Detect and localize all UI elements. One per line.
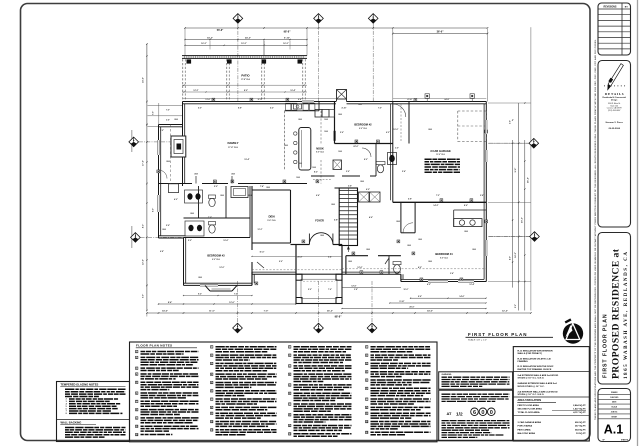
svg-text:2868: 2868 [338, 114, 342, 116]
svg-text:THESE PLANS AND SPECIFICATIONS: THESE PLANS AND SPECIFICATIONS ARE THE P… [594, 39, 597, 420]
den walls [251, 186, 253, 250]
patio roof band [182, 55, 307, 57]
svg-text:2868: 2868 [464, 231, 468, 233]
stairs [339, 188, 357, 246]
stair hall wall [335, 187, 340, 189]
porch posts [296, 274, 302, 280]
svg-text:2'-6": 2'-6" [346, 171, 350, 173]
svg-text:12'-4": 12'-4" [469, 283, 474, 286]
top extension lines [184, 29, 186, 56]
bed3 bay dim row [184, 295, 253, 297]
svg-text:9: 9 [289, 425, 290, 427]
svg-text:7: 7 [136, 401, 137, 403]
garage window tags [425, 94, 429, 98]
svg-text:FOYER: FOYER [315, 220, 324, 223]
patio post tags [187, 59, 192, 63]
svg-text:2'-6": 2'-6" [166, 225, 170, 227]
svg-text:24'-2": 24'-2" [245, 36, 251, 39]
svg-text:2868: 2868 [418, 239, 422, 241]
svg-text:2868: 2868 [396, 221, 400, 223]
svg-text:5: 5 [136, 382, 137, 384]
svg-text:2868: 2868 [298, 163, 302, 165]
svg-text:4'-10": 4'-10" [407, 98, 412, 101]
bottom dimension rows right [342, 287, 401, 289]
svg-text:6'-0": 6'-0" [143, 294, 145, 298]
kitchen island [299, 128, 311, 171]
svg-text:8: 8 [211, 407, 212, 409]
floor plan notes column 2 [211, 346, 213, 349]
svg-text:5068: 5068 [312, 167, 316, 169]
svg-text:20'-2": 20'-2" [521, 217, 523, 223]
svg-text:FAMILY: FAMILY [227, 141, 239, 145]
svg-text:16'-2": 16'-2" [283, 43, 288, 45]
svg-text:14'-6": 14'-6" [459, 295, 464, 298]
pencil logo [608, 64, 624, 90]
svg-text:9'-0" CLG: 9'-0" CLG [316, 152, 324, 154]
island stools [294, 132, 297, 135]
svg-text:56'-8": 56'-8" [217, 29, 224, 32]
svg-text:2868: 2868 [428, 129, 432, 131]
tempered glazing notes box [57, 382, 130, 442]
svg-text:1865 WABASH AVE, REDLANDS, CA: 1865 WABASH AVE, REDLANDS, CA [623, 250, 629, 379]
svg-text:1: 1 [366, 347, 367, 349]
svg-text:7'-0": 7'-0" [264, 310, 269, 312]
svg-text:2868: 2868 [166, 161, 170, 163]
svg-text:5: 5 [366, 380, 367, 382]
bed4 windows bottom [428, 280, 448, 282]
svg-text:3'-4": 3'-4" [450, 272, 454, 275]
svg-text:AREA TABULATION: AREA TABULATION [518, 399, 542, 402]
svg-text:6'-0": 6'-0" [198, 108, 202, 110]
revisions table [598, 3, 631, 55]
interior dim row upper [393, 98, 487, 100]
svg-text:BALCONY AREA: BALCONY AREA [518, 432, 536, 435]
svg-text:98'-8": 98'-8" [284, 31, 292, 34]
patio dim row 2 [182, 91, 307, 93]
svg-text:17'-8" CLG: 17'-8" CLG [241, 79, 251, 81]
svg-text:2868: 2868 [248, 195, 252, 197]
svg-text:6'-0": 6'-0" [366, 189, 370, 191]
svg-text:BEDROOM #4: BEDROOM #4 [435, 252, 453, 256]
svg-text:6'-8": 6'-8" [160, 251, 164, 253]
svg-text:9'-8": 9'-8" [298, 99, 302, 101]
left wing walls [159, 237, 184, 239]
designer stamp logo [563, 323, 583, 343]
window tag leaders top [237, 24, 239, 102]
svg-text:10'-0": 10'-0" [393, 129, 398, 131]
svg-text:11'-0" CLG: 11'-0" CLG [436, 154, 445, 156]
svg-text:3'-6": 3'-6" [348, 186, 352, 188]
svg-text:AT: AT [446, 411, 452, 416]
svg-text:(951) 456-0807: (951) 456-0807 [608, 110, 620, 112]
svg-text:4'-0": 4'-0" [174, 198, 178, 201]
svg-text:5'-2": 5'-2" [270, 108, 274, 110]
svg-text:9'-0" CLG: 9'-0" CLG [359, 128, 367, 130]
bottom tag leaders [237, 281, 239, 324]
skylight box [337, 90, 347, 100]
svg-text:7'-0": 7'-0" [208, 217, 212, 219]
svg-text:9'-10": 9'-10" [284, 37, 290, 39]
bedroom4 walls [393, 201, 487, 203]
garage note box (middle) [439, 372, 513, 389]
svg-text:BEDROOM #3: BEDROOM #3 [207, 254, 225, 258]
svg-text:9'-0" CLG: 9'-0" CLG [212, 259, 220, 261]
garage top wall [393, 101, 487, 103]
svg-text:FIRST FLOOR PLAN: FIRST FLOOR PLAN [468, 332, 528, 337]
svg-text:1/2: 1/2 [456, 411, 463, 417]
kitchen counter dashed [284, 111, 286, 170]
svg-text:7'-6": 7'-6" [328, 289, 332, 291]
svg-text:3: 3 [211, 363, 212, 365]
svg-text:WALL BACKING: WALL BACKING [61, 420, 82, 424]
garage door arc [393, 104, 406, 117]
svg-text:2868: 2868 [348, 261, 352, 263]
svg-text:A.1: A.1 [604, 423, 624, 437]
bath3 toilet [209, 222, 216, 225]
address note box (middle) [439, 390, 513, 441]
svg-text:10: 10 [366, 421, 368, 423]
svg-text:5'-0": 5'-0" [214, 186, 218, 188]
kitchen counter top [285, 110, 320, 112]
right dimension lines [512, 140, 514, 288]
svg-text:TOTAL FLOOR AREA: TOTAL FLOOR AREA [518, 411, 540, 414]
svg-text:6: 6 [473, 410, 476, 416]
svg-text:5068: 5068 [324, 119, 328, 121]
svg-text:14'-0": 14'-0" [427, 309, 433, 312]
svg-text:11'-6": 11'-6" [259, 252, 264, 254]
svg-text:9: 9 [211, 413, 212, 415]
window tag diamonds top [233, 14, 243, 24]
svg-text:3'-2": 3'-2" [515, 304, 517, 308]
bath2 vanity [185, 190, 203, 203]
master bath fixtures [333, 160, 342, 170]
bedroom2 walls [334, 102, 336, 144]
bedroom4 bath vanity [454, 209, 487, 211]
svg-text:5'-2": 5'-2" [188, 240, 192, 242]
svg-text:24'-8": 24'-8" [444, 98, 449, 101]
svg-text:6: 6 [136, 393, 137, 395]
svg-text:7'-4": 7'-4" [260, 185, 264, 188]
svg-text:3'-0": 3'-0" [395, 148, 399, 150]
bath2 toilet [209, 195, 216, 198]
svg-text:14'-2": 14'-2" [207, 36, 213, 39]
patio post center lines [182, 59, 184, 101]
svg-text:4'-0": 4'-0" [418, 266, 422, 269]
svg-text:8: 8 [366, 407, 367, 409]
svg-text:FRAMING: FRAMING [518, 360, 529, 363]
svg-text:690 SQ.FT.: 690 SQ.FT. [575, 422, 586, 424]
svg-text:1: 1 [211, 347, 212, 349]
svg-text:6: 6 [289, 393, 290, 395]
svg-text:7: 7 [211, 399, 212, 401]
svg-text:3 CAR GARAGE AREA: 3 CAR GARAGE AREA [518, 421, 542, 424]
svg-text:22'-0": 22'-0" [353, 146, 358, 148]
exterior wall right [485, 102, 487, 282]
svg-text:JOB NO.: JOB NO. [611, 412, 618, 414]
svg-text:9: 9 [366, 413, 367, 415]
svg-text:8: 8 [66, 413, 67, 415]
dotted separator [604, 85, 605, 86]
top dimension line row 2 [185, 39, 307, 41]
windows right wall [485, 150, 487, 162]
svg-text:2868: 2868 [266, 187, 270, 189]
door tag diamonds right [489, 142, 529, 144]
svg-text:9'-0": 9'-0" [153, 208, 155, 212]
svg-text:2868: 2868 [472, 249, 476, 251]
bed2 closet [408, 102, 410, 144]
svg-text:2868: 2868 [320, 235, 324, 237]
svg-text:Herman V. Perez: Herman V. Perez [606, 122, 624, 124]
svg-text:PATIO AREA: PATIO AREA [518, 428, 532, 431]
svg-text:12'-6": 12'-6" [229, 302, 234, 304]
svg-text:3: 3 [136, 368, 137, 370]
svg-text:2,864 SQ.FT.: 2,864 SQ.FT. [573, 404, 586, 407]
bath tub [231, 187, 248, 198]
svg-text:9'-0" CLG: 9'-0" CLG [440, 257, 448, 259]
svg-text:2868: 2868 [298, 119, 302, 121]
svg-text:2868: 2868 [174, 119, 178, 121]
svg-text:14'-6": 14'-6" [162, 309, 168, 312]
svg-text:5'-6": 5'-6" [340, 132, 344, 134]
fireplace [171, 136, 186, 157]
svg-text:7: 7 [366, 399, 367, 401]
svg-text:6'-2": 6'-2" [386, 132, 390, 134]
floor plan notes box [130, 342, 438, 442]
interior hall wall [159, 183, 193, 185]
svg-text:9'-0": 9'-0" [279, 261, 283, 263]
svg-text:6: 6 [366, 388, 367, 390]
bottom dimension row 2 [159, 303, 297, 305]
svg-text:5: 5 [211, 382, 212, 384]
svg-text:2: 2 [211, 355, 212, 357]
svg-text:5'-8": 5'-8" [408, 199, 412, 201]
svg-text:DRAWN: DRAWN [611, 391, 618, 394]
svg-text:2: 2 [289, 355, 290, 357]
svg-text:WALLS (FOR PRIVACY): WALLS (FOR PRIVACY) [518, 352, 543, 355]
svg-text:14'-0": 14'-0" [514, 252, 517, 258]
svg-text:19'-4": 19'-4" [244, 158, 249, 161]
svg-text:BEDROOM #2: BEDROOM #2 [354, 123, 372, 127]
svg-text:564 SQ.FT.: 564 SQ.FT. [575, 428, 586, 431]
svg-text:0: 0 [481, 410, 484, 416]
svg-text:10: 10 [289, 434, 291, 436]
svg-text:PORCH AREA: PORCH AREA [518, 425, 533, 428]
svg-text:R-30 INSULATION ON ATTIC LID: R-30 INSULATION ON ATTIC LID [518, 357, 552, 360]
sheet number box [598, 389, 631, 442]
svg-text:7'-0": 7'-0" [234, 293, 238, 295]
interior dim rows left wing [148, 104, 183, 106]
svg-text:TEMPERED GLAZING NOTES: TEMPERED GLAZING NOTES [61, 382, 99, 386]
svg-text:5068: 5068 [296, 177, 300, 179]
svg-text:2868: 2868 [358, 104, 362, 106]
svg-text:2868: 2868 [284, 145, 288, 147]
svg-text:3 CAR GARAGE: 3 CAR GARAGE [430, 149, 451, 153]
right dim connector stubs [488, 102, 531, 104]
svg-text:10'-4": 10'-4" [290, 89, 295, 92]
svg-text:6'-4": 6'-4" [316, 194, 320, 197]
svg-text:2868: 2868 [450, 159, 454, 161]
svg-text:98'-8": 98'-8" [335, 315, 343, 318]
hall bottom wall [346, 255, 368, 257]
svg-text:11'-2": 11'-2" [257, 99, 262, 101]
left dimension lines [146, 44, 148, 311]
svg-text:8'-4": 8'-4" [168, 301, 172, 304]
svg-text:12'-6": 12'-6" [143, 259, 145, 265]
svg-text:5068: 5068 [338, 151, 342, 153]
exterior wall top [183, 101, 337, 103]
svg-text:9'-6": 9'-6" [418, 296, 422, 298]
svg-text:6'-8": 6'-8" [334, 220, 338, 222]
svg-text:7'-6": 7'-6" [153, 111, 155, 115]
svg-text:1: 1 [136, 351, 137, 353]
svg-text:8: 8 [136, 410, 137, 412]
svg-text:2: 2 [366, 355, 367, 357]
svg-text:2: 2 [136, 357, 137, 359]
svg-text:7'-0": 7'-0" [166, 110, 170, 112]
svg-text:2868: 2868 [360, 181, 364, 183]
svg-text:26'-0": 26'-0" [409, 306, 414, 308]
svg-text:SCALE: 1/4" = 1'-0": SCALE: 1/4" = 1'-0" [468, 339, 487, 342]
svg-text:13'-2": 13'-2" [258, 229, 263, 231]
svg-text:16'-2": 16'-2" [201, 43, 206, 45]
porch inner dashed [301, 279, 337, 298]
svg-text:11: 11 [136, 434, 138, 436]
svg-text:17'-6": 17'-6" [143, 160, 145, 166]
svg-text:2868: 2868 [162, 229, 166, 231]
svg-text:PATIO: PATIO [241, 74, 250, 78]
project title box [598, 233, 631, 385]
stairs up arrow [347, 247, 349, 253]
svg-text:36'-4": 36'-4" [526, 177, 529, 183]
svg-text:2868: 2868 [198, 277, 202, 279]
svg-text:CHECKED: CHECKED [610, 397, 619, 399]
svg-text:GARAGE EXTERIOR WALLS ARE 2x4: GARAGE EXTERIOR WALLS ARE 2x4 [518, 382, 558, 385]
svg-text:WOOD STUDS @ 16" O.C.: WOOD STUDS @ 16" O.C. [518, 386, 545, 388]
laundry machines [359, 192, 370, 202]
bottom dimension line main [147, 312, 531, 314]
svg-text:17'-8" CLG: 17'-8" CLG [228, 147, 238, 149]
powder toilet [393, 262, 401, 265]
svg-text:2x4 EXTERIOR WALLS ARE 2x4 WOO: 2x4 EXTERIOR WALLS ARE 2x4 WOOD [518, 374, 559, 377]
svg-text:9'-10": 9'-10" [399, 301, 404, 303]
svg-text:RAFTER TOP FRAMING CHOICE: RAFTER TOP FRAMING CHOICE [518, 368, 552, 371]
svg-text:6: 6 [211, 391, 212, 393]
svg-text:7'-0": 7'-0" [378, 108, 382, 110]
exterior wall bottom left (bedroom3) [184, 284, 253, 286]
svg-text:8'-8": 8'-8" [238, 108, 242, 110]
svg-text:2868: 2868 [190, 213, 194, 215]
svg-text:10: 10 [136, 426, 138, 428]
svg-text:36'-6": 36'-6" [437, 30, 445, 33]
bath3 vanity [185, 221, 204, 236]
svg-text:8'-2": 8'-2" [143, 224, 145, 228]
svg-text:BY: BY [625, 6, 629, 8]
svg-text:13'-6": 13'-6" [205, 99, 210, 101]
insulation and area box [513, 347, 589, 441]
exterior wall bottom center [342, 273, 401, 275]
door tag diamonds left [139, 141, 171, 143]
refrigerator / pantry [315, 110, 322, 118]
exterior wall bottom right (bedroom4) [401, 281, 486, 283]
svg-text:10: 10 [211, 421, 213, 423]
svg-text:SHEET: SHEET [611, 416, 618, 418]
svg-text:2868: 2868 [220, 195, 224, 197]
svg-text:STUDS @ 16" O.C. U.N.O.: STUDS @ 16" O.C. U.N.O. [518, 394, 545, 396]
svg-text:12'-2": 12'-2" [502, 310, 508, 312]
svg-text:53 SQ.FT.: 53 SQ.FT. [576, 433, 586, 435]
svg-text:10'-0": 10'-0" [404, 289, 409, 291]
svg-text:2x4 INTERIOR WALLS ARE 2x4 WOO: 2x4 INTERIOR WALLS ARE 2x4 WOOD [518, 390, 558, 393]
hall wall below bath2 [342, 175, 360, 177]
svg-text:5068: 5068 [324, 131, 328, 133]
garage dashed parking [458, 110, 486, 112]
svg-text:3'-6": 3'-6" [166, 120, 170, 122]
svg-text:14'-6": 14'-6" [142, 77, 145, 83]
bedroom3 bay window [205, 285, 210, 291]
svg-text:SCALE: SCALE [611, 406, 618, 409]
svg-text:3'-0": 3'-0" [160, 130, 164, 132]
svg-text:9'-6": 9'-6" [515, 168, 517, 173]
svg-text:12'-2": 12'-2" [193, 90, 198, 92]
door leaf marks [195, 176, 197, 184]
svg-text:GARAGE:: GARAGE: [442, 373, 453, 376]
svg-text:4'-6": 4'-6" [369, 216, 373, 219]
nook wall [318, 102, 320, 111]
svg-text:0: 0 [490, 410, 493, 416]
svg-text:6'-2": 6'-2" [427, 284, 431, 286]
wall backing divider [57, 418, 130, 420]
foyer walls and entry doors [296, 244, 309, 246]
svg-text:Design: Design [611, 99, 618, 101]
kitchen window in top wall [302, 100, 314, 102]
interior dashed long [252, 269, 342, 271]
svg-text:8'-0": 8'-0" [364, 159, 368, 161]
svg-text:DATE: DATE [612, 401, 617, 404]
wing interior dashed [170, 125, 172, 184]
svg-text:2868: 2868 [231, 174, 235, 176]
svg-text:2868: 2868 [331, 204, 335, 206]
svg-text:12'-6": 12'-6" [357, 267, 362, 269]
floor plan notes column 1 [136, 350, 138, 353]
svg-text:2'-8": 2'-8" [480, 195, 484, 197]
svg-text:9'-0" CLG: 9'-0" CLG [267, 220, 276, 222]
svg-text:12'-6": 12'-6" [351, 285, 356, 287]
svg-text:4'-10": 4'-10" [342, 107, 347, 110]
garage note block [425, 158, 461, 160]
svg-text:36'-2": 36'-2" [327, 310, 333, 312]
svg-text:7'-2": 7'-2" [436, 195, 440, 197]
svg-text:8: 8 [289, 415, 290, 417]
svg-text:8'-0": 8'-0" [244, 90, 248, 92]
patio dim row [182, 84, 307, 86]
svg-text:2868: 2868 [428, 261, 432, 263]
svg-text:SECOND FLOOR AREA: SECOND FLOOR AREA [518, 408, 543, 411]
svg-text:8'-0": 8'-0" [509, 256, 511, 260]
svg-text:267 SQ.FT.: 267 SQ.FT. [575, 426, 586, 428]
top dimension line row 3 [185, 44, 307, 46]
left wing hall closet [169, 184, 179, 193]
svg-text:11'-0": 11'-0" [209, 310, 215, 312]
designer logo box [598, 61, 631, 228]
interior dim row hall [252, 255, 342, 257]
svg-text:1,427 SQ.FT.: 1,427 SQ.FT. [573, 408, 586, 411]
svg-text:14'-2": 14'-2" [433, 204, 438, 207]
porch [296, 274, 342, 303]
svg-text:8'-6": 8'-6" [464, 205, 468, 207]
garage west wall [392, 102, 394, 203]
svg-text:D E T A I L S: D E T A I L S [605, 92, 624, 96]
svg-text:NOOK: NOOK [316, 148, 324, 151]
